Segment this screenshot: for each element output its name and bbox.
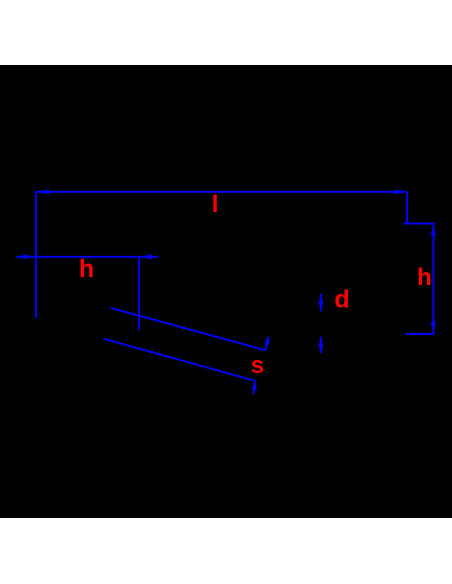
svg-text:d: d bbox=[334, 285, 349, 313]
svg-text:s: s bbox=[251, 352, 264, 379]
svg-text:h: h bbox=[79, 255, 94, 283]
svg-text:h: h bbox=[417, 264, 432, 291]
svg-text:l: l bbox=[212, 191, 219, 218]
